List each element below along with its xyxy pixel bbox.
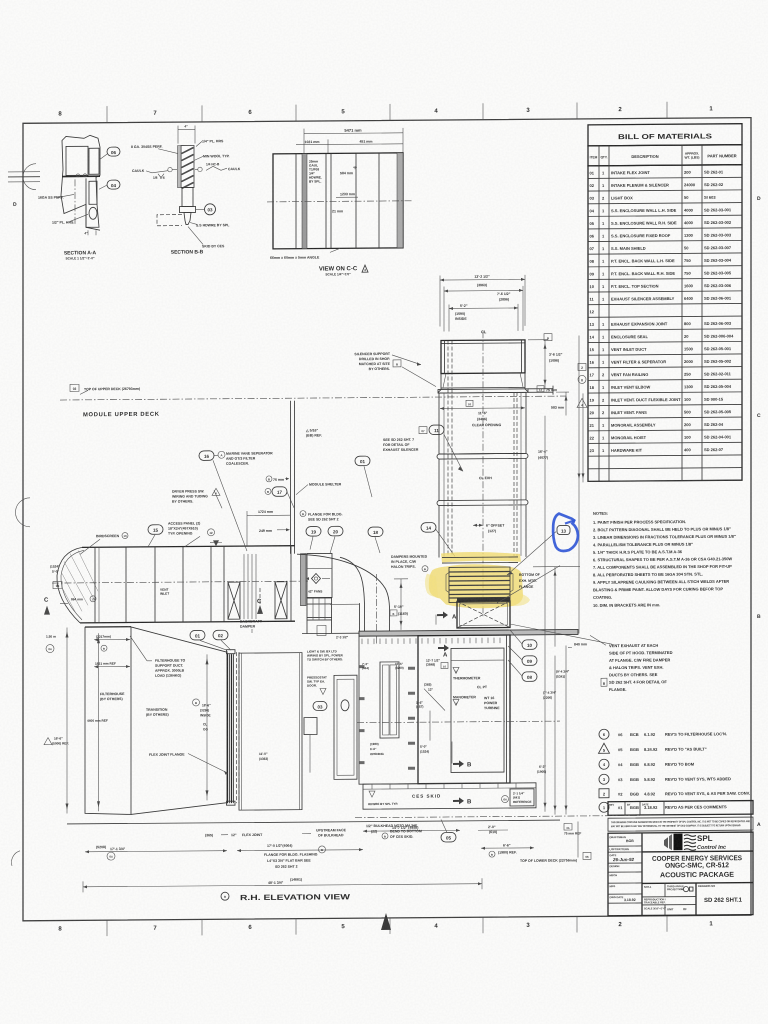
top of lower deck [481,847,534,849]
bill of materials table [588,124,742,482]
main panel box [273,153,403,249]
75 mm label [266,476,272,482]
5-10 dim [400,579,402,630]
bubble 03 [205,204,216,215]
door panel [334,675,357,779]
birdscreen mesh [62,550,98,613]
module shelter wall verticals [290,401,292,554]
flange for bldg [300,511,306,517]
damper X boxes [228,582,240,619]
bubbles 01 02 [190,630,205,640]
leaders to right notes [507,532,556,575]
18-6 inside dim [206,654,208,800]
section A-A detail [38,135,120,261]
bubble 17 [265,488,271,494]
exhaust bulkhead box [239,653,302,810]
bubble 01 upper [355,456,370,466]
bubbles 10 09 08 [522,640,537,650]
fan symbol [312,573,321,583]
tall double door [380,662,399,738]
bubbles 11 [419,427,427,434]
yellow highlighter mark [429,552,523,609]
lower deck line [355,815,640,817]
tower right dimensions [528,333,585,811]
left margin fold mark 2 [15,498,30,527]
notes block [593,510,736,608]
rev row 1 box [608,801,753,816]
middle section [439,392,526,454]
hatched wall bar [181,145,194,187]
top of upper deck label [70,384,79,391]
bubble 13 inside blue [557,526,570,535]
vent exhaust note [590,635,673,692]
bubble 18 [368,527,383,537]
border frame [23,118,751,921]
left margin fold mark 1 [23,164,36,190]
exhaust stack body [354,331,553,618]
left margin fold mark 3 [11,851,20,866]
dashed skid box [157,215,182,226]
right vertical dims [554,567,556,647]
blue pen annotation circle [553,513,578,551]
bubble 04 [107,180,120,189]
CES skid base [67,782,640,824]
fan railing [307,597,332,599]
bubble 16 + marine vane note [199,451,214,461]
exhaust stack top dims [440,274,525,334]
enclosure left part [359,636,418,784]
PT enclosure complex [239,610,578,810]
lower bar [182,187,193,206]
bubble 06 [107,147,120,156]
section arrows A B [437,611,448,618]
vent fan area [301,553,360,635]
16-6 dim [44,738,52,745]
SPL logo [664,833,726,851]
duct panel joints [94,547,96,623]
bubble 14 [421,523,436,533]
flange shelf [438,389,528,393]
view on C-C detail [267,127,412,277]
dim row2 [296,143,328,145]
duct labels [80,400,383,555]
6 offset dim [473,524,483,526]
bubbles 19 20 [306,526,321,536]
PT enclosure main [418,635,510,784]
zone ticks bottom [106,920,108,936]
vent inlet duct body [52,546,308,624]
support band [438,373,528,393]
filterhouse and transition [44,563,263,815]
title block [608,832,753,916]
dim 5471mm [304,132,403,135]
disclaimer box [608,817,753,831]
zone ticks top [106,106,108,123]
clear opening dim [466,400,473,406]
PT centerline [357,721,560,723]
hinge marks [408,667,415,670]
fastener row under beam [361,639,363,645]
inlet vent elbow [297,553,500,646]
BOM row marker symbols [578,363,586,370]
module upper deck line [60,396,566,400]
bottom dimension rows [83,818,591,903]
revision history [599,728,754,815]
view title [221,892,229,900]
transition trapezoid [131,626,227,653]
exhaust expansion joint [442,531,612,815]
backdraft damper vanes [243,554,245,619]
flex X box [457,601,510,628]
bottom center arrow [381,913,391,930]
interior dashed verticals [447,340,449,556]
duct centerline [52,581,308,583]
top beam [359,629,578,636]
flex joint (double flange) [227,653,229,803]
bubble 03 [313,701,327,710]
section B-B detail [131,124,241,256]
center line [482,331,484,616]
bubble 15 [148,525,163,535]
